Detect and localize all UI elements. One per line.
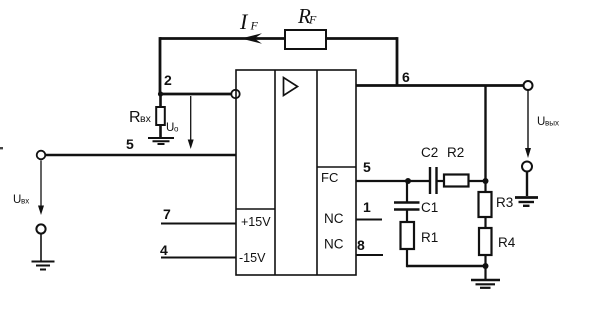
svg-text:R1: R1	[421, 230, 438, 245]
svg-text:F: F	[250, 19, 259, 33]
ground under Rвх	[148, 138, 174, 144]
node: junction dot bottom rail	[483, 263, 489, 269]
wire: bottom rail to ground node	[407, 265, 486, 267]
svg-text:-15V: -15V	[239, 251, 266, 265]
wire: vertical from pin6 wire down to divider node	[484, 86, 486, 182]
label Uвх	[13, 194, 29, 206]
svg-text:C2: C2	[421, 145, 438, 160]
svg-text:FC: FC	[321, 170, 338, 185]
svg-text:2: 2	[164, 72, 172, 88]
svg-text:6: 6	[402, 69, 410, 85]
ground under Uвых	[515, 198, 538, 206]
wire: C1 to R1	[406, 210, 408, 223]
svg-text:R4: R4	[498, 235, 516, 250]
op-amp triangle symbol	[284, 78, 298, 96]
svg-text:+15V: +15V	[241, 215, 271, 229]
node: junction dot at pin 2	[158, 91, 163, 96]
label Uвых	[537, 116, 559, 128]
resistor R4	[479, 228, 492, 255]
ground bottom right	[471, 280, 500, 288]
wire: stem to input ground	[40, 234, 42, 261]
wire: pin 1 stub	[356, 219, 382, 221]
resistor R2	[444, 175, 469, 187]
wire: R3 to R4	[484, 217, 486, 228]
wire: pin 5 horizontal from input terminal to IC	[45, 154, 236, 157]
svg-text:7: 7	[163, 206, 171, 222]
wire: left vertical of feedback x=160	[159, 37, 162, 94]
capacitor C1	[394, 203, 420, 210]
svg-text:4: 4	[160, 242, 168, 258]
svg-text:5: 5	[363, 159, 371, 175]
wire: pin 6 output horizontal	[356, 84, 524, 87]
voltage arrow Uвх pointing down	[38, 161, 44, 216]
svg-text:R3: R3	[496, 195, 513, 210]
wire: pin 8 stub	[356, 254, 383, 256]
input terminal circle top	[37, 151, 46, 160]
wire: C2 to R2	[437, 180, 445, 182]
svg-text:о: о	[174, 125, 179, 134]
wire: pin 2 horizontal to input circle	[159, 93, 232, 96]
wire: stem to output ground	[526, 172, 528, 197]
svg-text:NC: NC	[324, 211, 344, 226]
svg-text:I: I	[239, 9, 249, 34]
wire: top feedback horizontal left segment	[160, 37, 285, 40]
label Rвх	[129, 109, 152, 126]
label IF	[239, 9, 259, 34]
resistor Rвх	[156, 94, 165, 138]
svg-text:1: 1	[363, 199, 371, 215]
svg-text:вых: вых	[545, 119, 559, 128]
resistor R1	[401, 222, 415, 249]
svg-text:вх: вх	[21, 197, 29, 206]
input terminal circle bottom	[36, 224, 45, 233]
node: junction dot FC net	[405, 178, 411, 184]
wire: R4 to ground node	[484, 255, 486, 279]
wire: right vertical of feedback x=397	[396, 37, 399, 86]
svg-text:вх: вх	[140, 113, 152, 125]
current arrow IF on feedback wire	[241, 33, 262, 44]
wire: top feedback horizontal right segment	[326, 37, 397, 40]
svg-text:F: F	[308, 13, 317, 27]
ground under Uвх	[32, 262, 55, 270]
wire: node to R3	[484, 181, 486, 192]
svg-text:R: R	[129, 109, 141, 126]
wire: R2 to node	[469, 180, 487, 182]
label RF	[297, 4, 317, 28]
edge artifact left	[0, 147, 3, 149]
wire: node to C1	[406, 181, 408, 203]
svg-text:8: 8	[357, 237, 365, 253]
svg-text:R2: R2	[447, 145, 464, 160]
svg-text:5: 5	[126, 136, 134, 152]
resistor R3	[479, 192, 492, 217]
output terminal circle bottom	[522, 162, 532, 172]
wire: FC pin 5 horizontal	[356, 180, 429, 182]
voltage arrow Uo pointing down	[188, 96, 194, 149]
terminal circle at IC pin 2 input	[231, 90, 239, 98]
wire: pin 7 stub	[161, 223, 236, 225]
label Uo	[166, 122, 179, 134]
resistor RF	[285, 30, 326, 49]
node: junction dot output divider	[483, 178, 489, 184]
output terminal circle top	[524, 81, 533, 90]
op-amp IC body U1	[236, 70, 356, 275]
svg-text:C1: C1	[421, 200, 438, 215]
capacitor C2	[430, 167, 437, 194]
wire: R1 bottom to bottom rail	[406, 249, 408, 267]
wire: pin 4 stub	[161, 257, 236, 259]
voltage arrow Uвых pointing down	[525, 91, 531, 159]
svg-text:NC: NC	[324, 237, 344, 252]
